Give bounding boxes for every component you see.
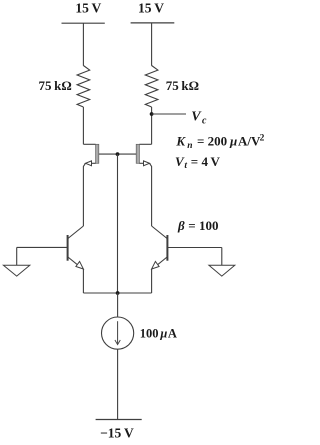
svg-text:A/V: A/V	[238, 134, 261, 149]
svg-text:μ: μ	[229, 134, 237, 149]
svg-text:n: n	[187, 141, 192, 151]
wire center vertical	[117, 154, 119, 293]
supply bar left	[62, 22, 105, 24]
label -15 V	[100, 426, 134, 441]
wire supply-to-resistor right	[151, 23, 153, 66]
svg-text:2: 2	[260, 134, 265, 144]
wire Vc stub	[152, 113, 186, 115]
supply label 15V right	[138, 0, 164, 15]
gate wire M1	[99, 153, 118, 155]
svg-text:V: V	[191, 110, 202, 125]
svg-text:75 kΩ: 75 kΩ	[39, 78, 72, 93]
svg-text:−15 V: −15 V	[100, 426, 134, 441]
label Vc	[191, 110, 207, 127]
svg-text:c: c	[202, 115, 207, 126]
neg supply bar	[96, 419, 142, 421]
svg-text:75 kΩ: 75 kΩ	[166, 78, 199, 93]
transistor Q1 left BJT	[68, 226, 84, 293]
svg-text:μ: μ	[159, 326, 167, 340]
svg-text:15 V: 15 V	[138, 0, 164, 15]
label 75 kOhm right	[166, 78, 199, 93]
wire source-to-neg supply	[117, 349, 119, 419]
node Vc dot	[150, 112, 154, 116]
base wire Q1	[17, 246, 68, 248]
mosfet M2 right	[136, 144, 151, 226]
mosfet M1 left	[83, 144, 98, 226]
base wire Q2	[167, 247, 221, 249]
svg-text:β: β	[177, 218, 185, 233]
label Kn = 200 uA/V^2	[175, 134, 264, 152]
svg-text:A: A	[168, 326, 177, 340]
label Vt = 4 V	[175, 154, 221, 171]
node tail dot	[116, 291, 120, 295]
transistor Q2 right BJT	[152, 226, 168, 293]
svg-text:K: K	[175, 134, 186, 149]
label beta = 100	[177, 218, 218, 233]
supply bar right	[131, 22, 175, 24]
svg-text:15 V: 15 V	[75, 0, 101, 15]
resistor R2 75k right	[145, 66, 158, 108]
wire rail-to-source	[117, 293, 119, 317]
svg-text:100: 100	[140, 326, 159, 340]
label 75 kOhm left	[39, 78, 72, 93]
bottom rail wire	[83, 292, 151, 294]
svg-text:= 4 V: = 4 V	[191, 154, 221, 169]
wire resistor-to-drain left	[82, 107, 84, 144]
supply label 15V left	[75, 0, 101, 15]
label 100 uA	[140, 326, 177, 340]
gate wire M2	[118, 153, 137, 155]
current source I1	[102, 317, 134, 349]
ground right	[209, 248, 235, 277]
wire resistor-to-node right	[151, 107, 153, 144]
svg-text:= 100: = 100	[188, 218, 218, 233]
ground left	[3, 247, 29, 276]
resistor R1 75k left	[77, 66, 90, 108]
node gate dot	[116, 152, 120, 156]
wire supply-to-resistor left	[82, 23, 84, 65]
svg-text:= 200: = 200	[197, 134, 227, 149]
svg-text:t: t	[184, 161, 187, 171]
